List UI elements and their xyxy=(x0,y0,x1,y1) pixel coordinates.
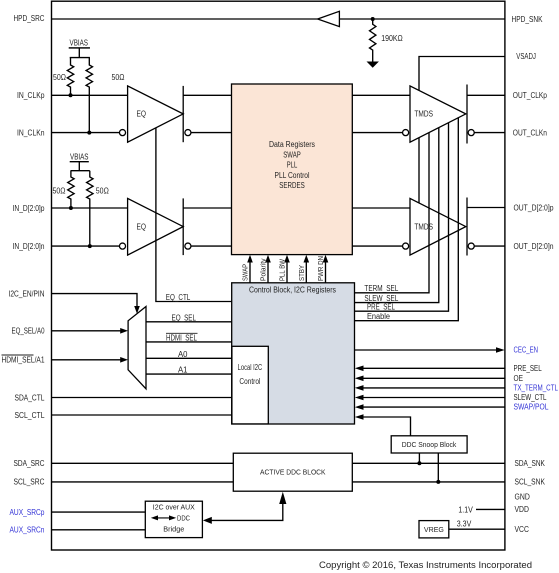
bubble TMDS1 output n xyxy=(468,130,474,136)
wire SCL_SRC xyxy=(52,481,234,483)
wire VREG to VCC xyxy=(449,528,505,530)
svg-text:A1: A1 xyxy=(178,366,188,375)
resistor R5 190Kohm xyxy=(370,19,376,62)
wire Data Registers to TMDS1 in n xyxy=(352,132,402,134)
wire DDC snoop to control block xyxy=(363,417,411,436)
block VREG xyxy=(419,521,449,538)
bubble EQ2 input n xyxy=(119,243,125,249)
wire Data Registers to TMDS1 in p xyxy=(352,94,410,96)
svg-text:SLEW_SEL: SLEW_SEL xyxy=(364,294,399,303)
wire PRE_SEL internal xyxy=(355,123,449,312)
svg-text:Copyright © 2016, Texas Instru: Copyright © 2016, Texas Instruments Inco… xyxy=(319,560,532,571)
wire mux out HDMI_SEL xyxy=(146,341,232,343)
wire I2C_EN/PIN to mux xyxy=(52,294,138,307)
svg-text:IN_D[2:0]n: IN_D[2:0]n xyxy=(13,242,45,251)
wire SCL_SNK xyxy=(352,481,505,483)
svg-text:HPD_SNK: HPD_SNK xyxy=(512,15,544,24)
node TMDS2 output bar xyxy=(466,198,468,256)
svg-text:PRE_SEL: PRE_SEL xyxy=(367,303,396,312)
wire SLEW_CTL pin xyxy=(363,397,505,399)
svg-text:AUX_SRCp: AUX_SRCp xyxy=(10,508,46,517)
block ACTIVE DDC BLOCK xyxy=(233,453,352,491)
wire PLL BW up-arrow xyxy=(286,261,288,283)
svg-text:TMDS: TMDS xyxy=(414,222,433,231)
wire mux out A1 xyxy=(146,373,232,375)
svg-text:50Ω: 50Ω xyxy=(53,186,66,195)
svg-text:VCC: VCC xyxy=(515,525,530,534)
wire EQ1 out n to Data Registers xyxy=(191,132,232,134)
svg-text:IN_D[2:0]p: IN_D[2:0]p xyxy=(13,204,46,213)
wire AUX_SRCn xyxy=(52,529,146,531)
op-amp EQ2 triangle xyxy=(128,198,184,255)
wire VBIAS1 rail stub xyxy=(69,48,90,58)
wire EQ_SEL/A0 to mux xyxy=(52,330,122,332)
wire TMDS1 out n to OUT_CLKn xyxy=(474,132,505,134)
svg-text:IN_CLKp: IN_CLKp xyxy=(17,91,45,100)
arrowhead snoop line into control block xyxy=(355,414,364,420)
wire PRE_SEL pin xyxy=(363,367,505,369)
arrowhead TX_TERM_CTL into control block xyxy=(355,385,364,391)
svg-text:SDA_CTL: SDA_CTL xyxy=(15,393,46,402)
svg-text:Local I2C: Local I2C xyxy=(238,363,263,372)
wire EQ2 out n to Data Registers xyxy=(191,245,232,247)
svg-text:SDA_SNK: SDA_SNK xyxy=(515,459,546,468)
junction dot R3 on IN_D[2:0]p xyxy=(69,206,73,210)
block Local I2C Control xyxy=(232,346,268,424)
arrowhead elbow into DDC bridge xyxy=(203,517,212,524)
wire CEC_EN xyxy=(355,349,498,351)
wire DDC snoop to SCL xyxy=(437,453,439,482)
wire DDC snoop to SDA xyxy=(418,453,420,463)
mux A0/A1 select trapezoid xyxy=(128,307,146,389)
svg-text:OE: OE xyxy=(514,374,524,383)
op-amp TMDS1 triangle xyxy=(410,86,466,142)
wire SDA_CTL xyxy=(52,397,232,399)
svg-text:DDC: DDC xyxy=(177,516,190,523)
ground symbol below 190K resistor xyxy=(367,62,379,68)
arrowhead STBY up xyxy=(304,255,310,263)
svg-text:STBY: STBY xyxy=(299,265,306,281)
svg-text:SWAP: SWAP xyxy=(283,150,301,159)
junction dot snoop SCL xyxy=(436,480,440,484)
wire VBIAS2 rail stub xyxy=(70,162,90,171)
resistor R4 50ohm lower-right xyxy=(87,171,93,246)
svg-text:OUT_CLKn: OUT_CLKn xyxy=(513,129,547,138)
wire TMDS2 out p to OUT_D[2:0]p xyxy=(467,207,505,209)
arrowhead PLL BW up xyxy=(284,255,290,263)
svg-text:EQ_SEL/A0: EQ_SEL/A0 xyxy=(12,327,46,336)
wire STBY up-arrow xyxy=(305,261,307,283)
chip boundary box xyxy=(52,1,505,550)
arrowhead SWAP up xyxy=(247,255,253,263)
wire SWAP up-arrow xyxy=(249,261,251,283)
svg-text:A0: A0 xyxy=(178,350,188,359)
node TMDS1 output bar xyxy=(466,85,468,144)
wire SDA_SNK xyxy=(352,462,505,464)
svg-text:Data Registers: Data Registers xyxy=(269,140,315,149)
block Control Block I2C Registers xyxy=(232,283,355,424)
block Data Registers SWAP PLL PLL-Control SERDES xyxy=(232,84,353,255)
svg-text:PLL: PLL xyxy=(287,161,298,170)
buffer U1 HPD (points left) xyxy=(318,11,340,26)
svg-text:OUT_D[2:0]n: OUT_D[2:0]n xyxy=(514,242,554,251)
arrowhead EQ_SEL/A0 into mux xyxy=(120,328,128,334)
junction dot R2 on IN_CLKn xyxy=(87,131,91,135)
svg-text:VBIAS: VBIAS xyxy=(70,39,89,48)
bubble TMDS2 output n xyxy=(468,243,474,249)
wire VSADJ lower segment between TMDS drivers xyxy=(418,138,420,203)
svg-text:SERDES: SERDES xyxy=(279,181,305,190)
svg-text:EQ: EQ xyxy=(137,109,147,118)
svg-text:I2C over AUX: I2C over AUX xyxy=(153,505,195,512)
wire AUX_SRCp xyxy=(52,511,146,513)
svg-text:1.1V: 1.1V xyxy=(458,505,473,514)
wire OE pin xyxy=(363,377,505,379)
wire SCL_CTL xyxy=(52,414,232,416)
svg-text:3.3V: 3.3V xyxy=(457,519,472,528)
arrowhead SWAP/POL into control block xyxy=(355,404,364,410)
svg-text:TMDS: TMDS xyxy=(414,109,433,118)
wire TX_TERM_CTL pin xyxy=(363,387,505,389)
bubble EQ1 output n xyxy=(185,130,191,136)
block DDC Snoop Block xyxy=(391,436,467,453)
block I2C over AUX DDC Bridge xyxy=(145,501,202,537)
svg-text:EQ_SEL: EQ_SEL xyxy=(172,313,197,322)
svg-text:TERM_SEL: TERM_SEL xyxy=(364,284,399,293)
svg-text:SWAP: SWAP xyxy=(243,264,250,281)
wire IN_CLKn xyxy=(52,132,120,134)
wire IN_D[2:0]n xyxy=(52,245,120,247)
bidirectional arrow inside DDC bridge xyxy=(151,515,176,520)
node EQ2 output bar xyxy=(182,198,184,255)
svg-text:50Ω: 50Ω xyxy=(112,73,125,82)
svg-text:50Ω: 50Ω xyxy=(96,186,109,195)
svg-text:PRE_SEL: PRE_SEL xyxy=(514,364,543,373)
svg-text:DDC Snoop Block: DDC Snoop Block xyxy=(402,442,457,449)
resistor R3 50ohm lower-left xyxy=(68,171,74,208)
bubble TMDS2 input n xyxy=(403,243,409,249)
wire SLEW_SEL xyxy=(355,127,439,302)
bubble EQ2 output n xyxy=(185,243,191,249)
arrowhead PRE_SEL into control block xyxy=(355,366,364,372)
svg-text:Polarity: Polarity xyxy=(261,258,268,281)
svg-text:SCL_CTL: SCL_CTL xyxy=(15,411,46,420)
junction dot snoop SDA xyxy=(417,461,421,465)
svg-text:190KΩ: 190KΩ xyxy=(381,34,403,43)
wire Data Registers to TMDS2 in p xyxy=(352,207,410,209)
svg-text:HPD_SRC: HPD_SRC xyxy=(14,14,45,23)
wire Data Registers to TMDS2 in n xyxy=(352,245,402,247)
svg-text:ACTIVE DDC BLOCK: ACTIVE DDC BLOCK xyxy=(260,469,326,476)
resistor R1 50ohm upper-left xyxy=(67,58,73,96)
svg-text:SCL_SNK: SCL_SNK xyxy=(515,478,546,487)
op-amp TMDS2 triangle xyxy=(410,198,466,255)
wire buffer to HPD_SNK xyxy=(339,18,505,20)
svg-text:CEC_EN: CEC_EN xyxy=(514,346,539,355)
svg-text:VSADJ: VSADJ xyxy=(516,52,536,61)
svg-text:EQ_CTL: EQ_CTL xyxy=(166,293,191,302)
wire mux out EQ_SEL xyxy=(146,321,232,323)
svg-text:PWR DN: PWR DN xyxy=(318,256,325,281)
junction dot R4 on IN_D[2:0]n xyxy=(88,244,92,248)
arrowhead OE into control block xyxy=(355,376,364,382)
svg-text:GND: GND xyxy=(515,492,531,501)
svg-text:VREG: VREG xyxy=(424,527,444,534)
wire HDMI_SEL/A1 to mux xyxy=(52,359,122,361)
wire Polarity up-arrow xyxy=(267,261,269,283)
wire EQ2 out p to Data Registers xyxy=(183,207,231,209)
wire PWR DN up-arrow xyxy=(325,261,327,283)
wire EQ1 out p to Data Registers xyxy=(183,94,231,96)
arrowhead SLEW_CTL into control block xyxy=(355,395,364,401)
svg-text:OUT_CLKp: OUT_CLKp xyxy=(513,91,548,100)
node EQ1 output bar xyxy=(182,86,184,142)
svg-text:IN_CLKn: IN_CLKn xyxy=(17,129,45,138)
svg-text:HDMI_SEL/A1: HDMI_SEL/A1 xyxy=(2,356,45,365)
svg-text:HDMI_SEL: HDMI_SEL xyxy=(166,333,198,342)
arrowhead I2C_EN into mux xyxy=(134,306,140,314)
wire TERM_SEL xyxy=(355,133,430,293)
arrowhead HDMI_SEL/A1 into mux xyxy=(120,357,128,363)
svg-text:TX_TERM_CTL: TX_TERM_CTL xyxy=(514,384,559,393)
svg-text:Bridge: Bridge xyxy=(163,527,184,534)
svg-text:OUT_D[2:0]p: OUT_D[2:0]p xyxy=(514,204,555,213)
bubble EQ1 input n xyxy=(119,130,125,136)
arrowhead elbow into ACTIVE DDC BLOCK xyxy=(279,492,286,504)
svg-text:SLEW_CTL: SLEW_CTL xyxy=(514,393,548,402)
junction dot HPD resistor xyxy=(371,17,375,21)
arrowhead CEC_EN out xyxy=(496,347,505,353)
bubble TMDS1 input n xyxy=(403,130,409,136)
wire DDC bridge to ACTIVE DDC BLOCK elbow xyxy=(211,503,283,520)
svg-text:VDD: VDD xyxy=(515,505,530,514)
svg-text:AUX_SRCn: AUX_SRCn xyxy=(10,526,45,535)
svg-text:SDA_SRC: SDA_SRC xyxy=(14,459,45,468)
resistor R2 50ohm upper-right xyxy=(86,58,92,133)
op-amp EQ1 triangle xyxy=(128,86,184,142)
svg-text:Control: Control xyxy=(239,377,260,386)
wire EQ_CTL vertical to both EQ stages xyxy=(156,128,232,302)
wire IN_D[2:0]p xyxy=(52,207,128,209)
wire VSADJ upper segment xyxy=(419,57,505,91)
wire 1.1V to VDD xyxy=(476,508,505,510)
wire mux out A0 xyxy=(146,357,232,359)
svg-text:I2C_EN/PIN: I2C_EN/PIN xyxy=(9,290,45,299)
wire TMDS2 out n to OUT_D[2:0]n xyxy=(474,245,505,247)
wire HPD_SRC to buffer xyxy=(52,18,318,20)
wire SWAP/POL pin xyxy=(363,406,505,408)
svg-text:50Ω: 50Ω xyxy=(53,73,66,82)
arrowhead PWR DN up xyxy=(323,255,329,263)
svg-text:Enable: Enable xyxy=(367,312,390,321)
wire Enable xyxy=(355,117,459,320)
svg-text:SCL_SRC: SCL_SRC xyxy=(14,478,45,487)
arrowhead Polarity up xyxy=(265,255,271,263)
svg-text:Control Block, I2C Registers: Control Block, I2C Registers xyxy=(249,286,336,295)
wire TMDS1 out p to OUT_CLKp xyxy=(467,94,505,96)
svg-text:EQ: EQ xyxy=(137,222,147,231)
wire IN_CLKp xyxy=(52,94,128,96)
svg-text:PLL Control: PLL Control xyxy=(275,171,310,180)
wire SDA_SRC xyxy=(52,462,234,464)
junction dot R1 on IN_CLKp xyxy=(69,93,73,97)
svg-text:PLL BW: PLL BW xyxy=(280,259,287,281)
svg-text:SWAP/POL: SWAP/POL xyxy=(514,403,550,412)
overbar for HDMI_SEL part of HDMI_SEL/A1 xyxy=(2,354,34,356)
svg-text:VBIAS: VBIAS xyxy=(70,152,89,161)
